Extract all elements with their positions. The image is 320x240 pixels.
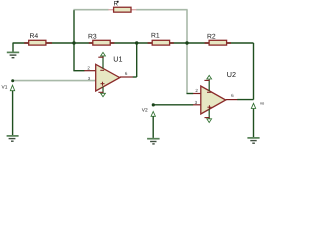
resistor R2 bbox=[205, 34, 231, 46]
svg-text:R4: R4 bbox=[30, 33, 39, 40]
svg-text:R2: R2 bbox=[207, 34, 216, 41]
ground: top-left bbox=[7, 52, 19, 57]
wire: ground stub top-left vertical bbox=[12, 43, 14, 52]
svg-text:V1: V1 bbox=[2, 84, 8, 90]
wire: right vertical pale x=187 from top to U2 pin2 corner bbox=[186, 10, 188, 94]
wire: V1 to U1 pin3 (pale) bbox=[13, 80, 96, 82]
wire: U2 pin2 horizontal bbox=[187, 93, 194, 95]
power V+ pin U1 bbox=[98, 52, 105, 68]
svg-text:U2: U2 bbox=[227, 70, 236, 79]
svg-text:R3: R3 bbox=[88, 33, 97, 40]
svg-text:3: 3 bbox=[195, 100, 198, 105]
pin stub: U1 pin2 maroon bbox=[84, 70, 95, 72]
wire: U1 pin2 horizontal bbox=[73, 70, 84, 72]
power V- pin U2 bbox=[205, 109, 212, 122]
pin stub: U2 output maroon bbox=[226, 99, 238, 101]
terminal V2 bbox=[142, 103, 156, 138]
svg-text:R1: R1 bbox=[151, 33, 160, 40]
svg-text:2: 2 bbox=[87, 65, 90, 70]
wire: U1 output vertical up to main line bbox=[136, 43, 138, 77]
resistor R4 bbox=[24, 33, 52, 45]
svg-text:2: 2 bbox=[195, 88, 198, 93]
svg-text:6: 6 bbox=[125, 71, 128, 76]
wire: left vertical x=74 from top corner through junction down to U1 pin2 corner bbox=[73, 10, 75, 70]
ground under V2 bbox=[147, 139, 160, 144]
pin stub: U1 output maroon bbox=[120, 76, 133, 78]
node: junction main line / U1 output bbox=[135, 41, 138, 44]
svg-text:U1: U1 bbox=[113, 54, 122, 63]
wire: feedback top horizontal (pale) left part bbox=[73, 9, 108, 11]
wire: U2 output green to right corner bbox=[237, 99, 253, 101]
ground under vo bbox=[247, 138, 259, 143]
wire: main horizontal net at y=43 bbox=[13, 42, 254, 44]
power V- pin U1 bbox=[98, 87, 105, 97]
pin stub: U2 pin2 maroon bbox=[193, 93, 201, 95]
power V+ pin U2 bbox=[204, 75, 211, 91]
node: junction main line / left vertical bbox=[72, 41, 75, 44]
terminal vo (output) bbox=[251, 101, 265, 138]
ground under V1 bbox=[7, 136, 19, 141]
resistor R3 bbox=[88, 33, 114, 45]
terminal V1 bbox=[2, 79, 15, 135]
node: junction main line / right vertical bbox=[185, 41, 188, 44]
resistor R1 bbox=[148, 33, 174, 45]
pin stub: U2 pin3 maroon bbox=[193, 104, 201, 106]
op-amp U1 bbox=[87, 54, 128, 91]
wire: right vertical from main line down to output bbox=[253, 43, 255, 100]
resistor R5 (top feedback) bbox=[108, 0, 136, 12]
svg-text:V2: V2 bbox=[142, 108, 148, 114]
op-amp U2 bbox=[195, 70, 236, 114]
svg-text:6: 6 bbox=[231, 93, 234, 98]
wire: V2 to U2 pin3 bbox=[154, 104, 193, 106]
wire: feedback top horizontal (pale) right part bbox=[136, 9, 188, 11]
wire: U1 output green to corner bbox=[133, 76, 137, 78]
svg-text:vo: vo bbox=[260, 101, 265, 106]
